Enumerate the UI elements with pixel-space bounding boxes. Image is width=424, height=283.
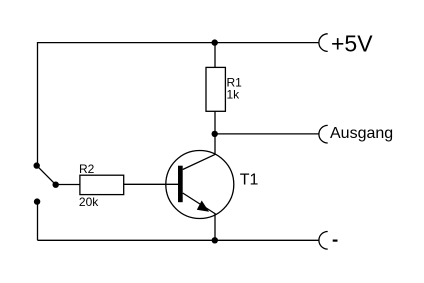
label minus: [333, 240, 338, 242]
transistor T1 base bar: [178, 166, 183, 203]
svg-text:Ausgang: Ausgang: [330, 125, 393, 142]
junction dot top rail: [212, 39, 218, 45]
wire Ausgang: [215, 133, 319, 135]
wire bottom rail: [38, 239, 319, 241]
svg-text:+5V: +5V: [331, 31, 373, 57]
wire R2 to base: [124, 183, 178, 185]
switch S1 contact bottom: [34, 198, 40, 204]
wire R1 top branch: [214, 43, 216, 68]
transistor T1 collector line: [183, 154, 216, 169]
wire R1 bottom to collector: [214, 111, 216, 154]
svg-text:20k: 20k: [79, 195, 99, 209]
terminal Ausgang: [319, 125, 328, 143]
terminal +5V: [319, 34, 328, 52]
resistor R2: [80, 175, 124, 194]
switch S1 blade: [37, 166, 56, 185]
wire lower switch contact down: [37, 202, 39, 241]
switch S1 contact top: [34, 162, 40, 168]
wire switch pivot to R2: [56, 184, 80, 186]
svg-text:R2: R2: [79, 162, 95, 176]
wire top rail +5V: [38, 43, 320, 166]
wire emitter to bottom rail: [214, 214, 216, 241]
transistor T1 emitter line: [183, 193, 216, 214]
resistor R1: [206, 67, 225, 111]
transistor T1 emitter arrow: [197, 201, 209, 212]
terminal minus: [319, 232, 328, 250]
svg-text:1k: 1k: [227, 87, 241, 101]
junction dot bottom rail: [212, 237, 218, 243]
switch S1 pivot: [53, 182, 59, 188]
transistor T1 body circle: [166, 151, 234, 219]
svg-text:T1: T1: [240, 172, 259, 189]
junction dot Ausgang node: [212, 131, 218, 137]
